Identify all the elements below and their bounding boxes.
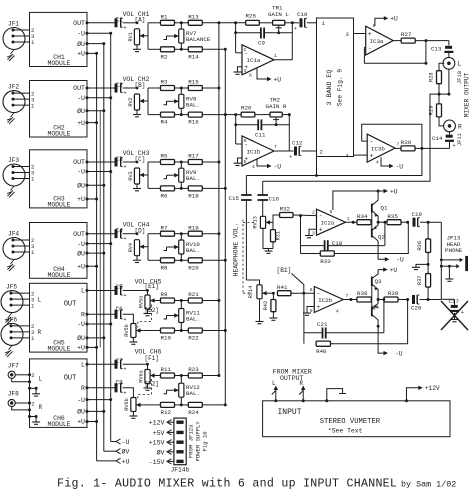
wire JF7 shield to module — [12, 378, 31, 383]
svg-text:-: - — [369, 138, 373, 145]
resistor R29 — [429, 104, 445, 126]
wire C3 to RV3 — [123, 161, 139, 164]
svg-text:+12V: +12V — [149, 420, 165, 427]
ground below RV13/R31 — [263, 228, 273, 253]
svg-text:-: - — [317, 290, 321, 297]
headphone vol gang dashes — [232, 220, 254, 294]
wiper of RV14 — [262, 291, 273, 295]
RCA connector JF7 — [8, 362, 19, 378]
svg-text:ØU: ØU — [77, 40, 85, 48]
wiper of RV5a — [150, 298, 157, 302]
svg-text:IC1a: IC1a — [247, 57, 261, 64]
resistor R14 — [188, 47, 202, 61]
svg-text:RV6b: RV6b — [124, 398, 130, 410]
resistor R38 — [351, 290, 372, 302]
ground (chassis) at JF6 — [5, 345, 13, 357]
3 BAND EQ block — [317, 18, 354, 157]
svg-text:JF7: JF7 — [8, 362, 19, 369]
svg-text:IC3b: IC3b — [371, 146, 385, 153]
svg-text:R6: R6 — [161, 192, 168, 199]
svg-text:3: 3 — [244, 68, 247, 74]
resistor R24 — [188, 402, 202, 416]
svg-text:-U: -U — [77, 241, 85, 248]
svg-text:OUT: OUT — [73, 85, 85, 92]
svg-text:C1: C1 — [116, 17, 124, 24]
stub below EQ box — [315, 157, 318, 177]
svg-text:R41: R41 — [277, 284, 288, 291]
svg-text:C6: C6 — [116, 306, 124, 313]
wire C2 to RV2 — [123, 87, 139, 90]
svg-text:See Fig. 9: See Fig. 9 — [337, 69, 344, 106]
svg-text:-: - — [368, 45, 372, 52]
svg-text:RV6a: RV6a — [138, 370, 144, 382]
potentiometer RV5a (volume) — [138, 295, 150, 309]
svg-text:2: 2 — [31, 400, 34, 407]
svg-text:OUT: OUT — [73, 20, 85, 27]
ground below RV5a — [144, 309, 152, 316]
svg-text:R10: R10 — [161, 335, 172, 342]
svg-text:+U: +U — [77, 345, 85, 352]
op-amp IC3a — [366, 23, 394, 55]
svg-text:C20: C20 — [411, 305, 422, 312]
rail terminal 0V — [104, 448, 130, 456]
svg-text:+: + — [294, 26, 297, 32]
svg-text:[F1]: [F1] — [145, 355, 159, 362]
wire R15 to L bus — [202, 87, 220, 90]
JF14b pin 0V — [157, 448, 174, 456]
capacitor C15 — [229, 176, 252, 281]
svg-text:R26: R26 — [241, 104, 252, 111]
svg-text:R7: R7 — [161, 224, 168, 231]
wire R2-R14 junction to balance pot — [175, 43, 189, 51]
svg-text:+: + — [461, 310, 464, 316]
pin numbers for JF2 — [31, 90, 35, 109]
capacitor C13 — [431, 41, 453, 58]
transistor Q3 (NPN) — [372, 270, 382, 300]
svg-text:+: + — [317, 304, 321, 311]
potentiometer RV13 (headphone vol L) — [253, 216, 266, 228]
svg-text:by Sam 1/02: by Sam 1/02 — [401, 480, 456, 490]
pin numbers for JF5 — [31, 290, 42, 309]
EQ pin 3 to IC3a — [346, 31, 366, 38]
svg-text:R: R — [81, 385, 85, 392]
capacitor C17 (deleted) — [441, 298, 468, 330]
svg-text:R18: R18 — [188, 192, 199, 199]
wiper of RV9 with ground hook — [164, 173, 179, 179]
svg-text:R30: R30 — [401, 139, 412, 146]
svg-text:JF1: JF1 — [8, 21, 19, 28]
potentiometer RV4 (volume) — [128, 240, 140, 256]
resistor R21 — [188, 291, 202, 303]
op-amp IC2b — [310, 287, 353, 314]
svg-text:GAIN L: GAIN L — [268, 11, 289, 18]
wire CH6 +U to bus — [87, 420, 98, 423]
svg-text:BAL.: BAL. — [186, 175, 200, 182]
wire headphone feed L (from IC3b node) — [246, 148, 422, 175]
label FROM MIXER OUTPUT — [273, 368, 312, 382]
wire R16 to R bus — [202, 113, 227, 116]
bus +U vertical — [96, 53, 98, 461]
svg-text:C10: C10 — [297, 11, 308, 18]
svg-text:-15V: -15V — [149, 459, 165, 466]
wiper of RV4 — [140, 245, 148, 249]
svg-text:-: - — [319, 213, 323, 220]
resistor R6 — [161, 186, 175, 200]
svg-text:-U: -U — [396, 257, 404, 264]
bus -U vertical — [110, 33, 112, 441]
svg-text:OUT: OUT — [73, 159, 85, 166]
svg-text:-U: -U — [77, 30, 85, 37]
svg-text:Q1: Q1 — [381, 205, 388, 212]
svg-text:+: + — [124, 25, 127, 31]
wire CH4 0U to bus — [87, 252, 105, 255]
svg-text:IC2a: IC2a — [321, 220, 335, 227]
wire RV5a wiper to R9 — [158, 300, 161, 302]
svg-text:BAL.: BAL. — [186, 316, 200, 323]
labels VOL CH3, C3, node C — [116, 150, 150, 163]
rail terminal -U — [111, 439, 130, 446]
RCA connector JF8 — [8, 391, 19, 407]
svg-text:2: 2 — [244, 47, 247, 53]
svg-text:L: L — [272, 380, 276, 387]
ground below RV6b — [129, 412, 137, 419]
resistor R37 — [417, 264, 430, 299]
resistor R41 — [277, 284, 314, 296]
svg-text:L: L — [81, 361, 85, 368]
potentiometer RV11 (balance) — [179, 309, 201, 323]
wire R12-R24 junction to RV12 — [175, 397, 189, 406]
svg-text:+: + — [124, 367, 127, 373]
capacitor C6 — [87, 310, 127, 323]
svg-text:C17: C17 — [449, 298, 460, 305]
svg-text:2: 2 — [312, 210, 315, 216]
wire C12 to EQ pin 2 — [302, 148, 323, 155]
module CH1 MODULE output pins — [73, 20, 88, 58]
svg-text:R17: R17 — [188, 153, 199, 160]
wire CH3 +U to bus — [87, 198, 98, 201]
svg-text:C16: C16 — [269, 196, 280, 203]
svg-text:ØU: ØU — [77, 408, 85, 416]
trimmer TR2 GAIN R — [266, 96, 287, 126]
label OUT inside CH5 module — [64, 301, 77, 309]
ground (chassis) at JF3 — [7, 186, 15, 198]
svg-text:MIXER OUTPUT: MIXER OUTPUT — [464, 72, 471, 117]
wiper of RV1 — [140, 34, 148, 38]
svg-text:+: + — [124, 91, 127, 97]
resistor R30 — [395, 139, 415, 151]
JF14b pin +5V — [153, 430, 174, 437]
resistor R15 — [188, 79, 202, 91]
trimmer TR1 GAIN L — [268, 5, 289, 35]
resistor R28 — [429, 63, 445, 83]
svg-text:BAL.: BAL. — [186, 247, 200, 254]
node label B1 with wire — [277, 267, 304, 293]
labels C8, node F2 — [116, 380, 159, 388]
labels VOL CH2, C2, node B — [116, 76, 150, 89]
pin numbers for JF3 — [31, 164, 35, 183]
svg-text:6: 6 — [244, 138, 247, 144]
svg-text:L: L — [81, 288, 85, 295]
wire RV6b wiper to R12 — [143, 404, 160, 406]
labels VOL CH5, C5, node E1 — [116, 279, 162, 292]
XLR connector JF1 — [3, 21, 30, 50]
channel module box CH3 MODULE — [30, 150, 88, 209]
resistor R7 — [161, 224, 175, 236]
svg-text:JF14b: JF14b — [171, 467, 190, 474]
resistor R3 — [161, 79, 175, 91]
svg-text:ØU: ØU — [77, 249, 85, 257]
wire RV4 wiper to summing resistors — [148, 234, 161, 261]
wire JF8 signal to module — [15, 400, 42, 410]
ground at IC1a + input — [234, 67, 243, 75]
module CH2 MODULE output pins — [73, 85, 88, 127]
svg-text:R: R — [458, 123, 462, 130]
svg-text:6: 6 — [310, 287, 313, 293]
ground below RV14 — [256, 299, 264, 324]
svg-text:+12V: +12V — [425, 385, 440, 392]
JF14b pin -15V — [149, 459, 174, 466]
wire RV2 wiper to summing resistors — [148, 88, 161, 115]
svg-text:7: 7 — [346, 293, 349, 299]
svg-text:R37: R37 — [417, 275, 423, 285]
svg-text:R21: R21 — [188, 291, 199, 298]
wiper of RV12 with ground hook — [164, 388, 179, 394]
svg-text:C3: C3 — [116, 156, 124, 163]
wire CH3 0U to bus — [87, 184, 105, 187]
svg-text:JF8: JF8 — [8, 391, 19, 398]
ground (chassis) at JF5 — [5, 313, 13, 325]
svg-text:R23: R23 — [188, 366, 199, 373]
wire Q4 collector to -U arrow — [377, 320, 403, 358]
resistor R4 — [161, 112, 175, 126]
svg-text:R42: R42 — [263, 301, 269, 310]
capacitor C14 — [432, 131, 456, 149]
svg-text:R31: R31 — [275, 231, 281, 240]
svg-text:JF10: JF10 — [457, 71, 463, 84]
wire CH1 0U to bus — [87, 42, 105, 45]
wire C7 to RV6a — [123, 363, 149, 370]
label FROM JF12a POWER SUPPLY Fig 10 — [188, 421, 209, 462]
potentiometer RV6a (volume) — [138, 370, 150, 384]
potentiometer RV14 (headphone vol R) — [246, 280, 262, 299]
capacitor C19 — [412, 211, 423, 227]
wire R11-R23 junction to RV12 — [175, 374, 189, 383]
wiper of RV3 — [140, 173, 148, 177]
svg-text:L: L — [458, 61, 462, 68]
pin numbers for JF4 — [31, 237, 35, 256]
VU ground hook — [325, 389, 346, 403]
svg-text:R3: R3 — [161, 79, 168, 86]
capacitor C20 — [411, 295, 441, 312]
svg-text:R13: R13 — [188, 13, 199, 20]
svg-text:ØU: ØU — [77, 181, 85, 189]
wire R8-R20 junction to balance pot — [175, 254, 189, 262]
transistor Q4 (PNP) — [372, 286, 380, 320]
svg-text:[B1]: [B1] — [277, 267, 292, 274]
svg-text:+: + — [369, 152, 373, 159]
labels VOL CH6, C7, node F1 — [116, 349, 162, 365]
svg-text:+: + — [368, 31, 372, 38]
feedback C21 — [304, 293, 385, 344]
VU input L arrow — [272, 380, 278, 402]
svg-text:3 BAND EQ: 3 BAND EQ — [326, 70, 333, 106]
wire L bus to summing node — [219, 21, 246, 24]
svg-text:JF4: JF4 — [8, 231, 19, 238]
wire R26 to TR2 — [255, 114, 270, 116]
wire CH4 +U to bus — [87, 265, 98, 268]
resistor R18 — [188, 186, 202, 200]
svg-text:GAIN R: GAIN R — [266, 103, 287, 110]
svg-text:OUT: OUT — [64, 301, 77, 309]
wire R18 to R bus — [202, 187, 227, 190]
svg-text:+: + — [289, 154, 292, 160]
svg-text:RV5a: RV5a — [138, 296, 144, 308]
label MIXER OUTPUT — [464, 72, 471, 117]
svg-text:C7: C7 — [116, 358, 124, 365]
svg-text:Q2: Q2 — [378, 234, 385, 241]
ground (chassis) at JF2 — [7, 113, 15, 125]
transistor Q1 (NPN) — [372, 191, 388, 222]
wire CH2 0U to bus — [87, 109, 105, 112]
wire R5-R17 junction to balance pot — [175, 161, 189, 169]
svg-text:7: 7 — [274, 144, 277, 150]
svg-text:-U: -U — [395, 351, 403, 358]
resistor R31 — [271, 222, 282, 241]
svg-text:PHONE: PHONE — [445, 247, 463, 254]
wire R27 to L output node — [415, 39, 449, 42]
svg-text:-U: -U — [396, 163, 404, 170]
supply arrow +U for Q3 — [378, 267, 397, 274]
svg-text:BAL.: BAL. — [186, 101, 200, 108]
ground below RV4 — [133, 256, 141, 263]
channel module box CH4 MODULE — [30, 223, 88, 279]
svg-text:4: 4 — [376, 160, 379, 166]
svg-text:-U: -U — [77, 95, 85, 102]
wiper of RV10 with ground hook — [164, 245, 179, 251]
gang dashes RV5a-RV5b — [138, 305, 152, 328]
svg-text:R24: R24 — [188, 409, 199, 416]
capacitor C21 — [317, 321, 328, 339]
ground below RV1 — [133, 45, 141, 52]
svg-text:ØU: ØU — [77, 334, 85, 342]
svg-text:R: R — [39, 404, 43, 411]
svg-text:OUT: OUT — [64, 375, 77, 383]
svg-text:R22: R22 — [188, 335, 199, 342]
svg-text:R5: R5 — [161, 153, 168, 160]
wire Q2 collector to -U arrow — [378, 241, 404, 264]
svg-text:R39: R39 — [388, 290, 399, 297]
wire TR1 to output node — [285, 21, 294, 24]
potentiometer RV9 (balance) — [179, 168, 200, 182]
svg-text:RV4: RV4 — [128, 243, 134, 252]
wire headphone feed R (from R28/R29 tap) — [263, 98, 430, 181]
capacitor C3 — [87, 158, 127, 171]
wiper of RV5b — [136, 328, 143, 332]
bus aux vertical — [99, 111, 101, 348]
ground stub at headphone bias node — [412, 263, 430, 270]
svg-text:+U: +U — [390, 188, 398, 195]
svg-text:+: + — [453, 143, 456, 149]
svg-text:RV5b: RV5b — [124, 324, 130, 336]
svg-text:+U: +U — [77, 196, 85, 203]
svg-text:+: + — [124, 165, 127, 171]
EQ pin 4 to IC3b — [346, 153, 368, 160]
wire RV1 wiper to summing resistors — [148, 23, 161, 50]
module CH4 MODULE output pins — [73, 231, 88, 271]
svg-text:1: 1 — [347, 216, 350, 222]
svg-text:R25: R25 — [246, 13, 257, 20]
svg-text:+U: +U — [77, 263, 85, 270]
resistor R19 — [188, 224, 202, 236]
ground (chassis) at JF4 — [7, 260, 15, 272]
capacitor C2 — [87, 84, 127, 97]
resistor R34 — [353, 213, 372, 225]
ground pin of JF8 input — [28, 415, 40, 424]
module CH3 MODULE output pins — [73, 159, 88, 203]
capacitor C4 — [87, 229, 127, 242]
resistor R23 — [188, 366, 202, 378]
connector JF14b (power input) — [171, 418, 190, 473]
rail terminal +U — [97, 458, 130, 465]
wire CH5 +U to bus — [87, 346, 98, 349]
ground (chassis) at JF1 — [7, 50, 15, 62]
wire C5 to RV5a — [123, 289, 149, 295]
wire R bus to summing node — [225, 113, 241, 116]
resistor R8 — [161, 258, 175, 272]
svg-text:ØV: ØV — [157, 448, 165, 456]
svg-text:RV3: RV3 — [128, 171, 134, 180]
svg-text:POWER SUPPLY: POWER SUPPLY — [195, 421, 202, 462]
wire C19 to jack feed vertical — [420, 221, 441, 300]
potentiometer RV5b (volume) — [124, 324, 136, 338]
svg-text:C18: C18 — [332, 240, 343, 247]
wire CH6 -U to bus — [87, 398, 112, 401]
wire R24 to R bus (bottom of R bus) — [202, 403, 227, 406]
wire R22 to R bus — [202, 329, 227, 332]
VU input R arrow — [299, 380, 305, 402]
svg-text:+U: +U — [390, 16, 398, 23]
capacitor C11 — [255, 119, 266, 138]
wire R30 to R output node and C14 — [415, 147, 450, 150]
svg-text:R4: R4 — [161, 119, 168, 126]
wire R19 to L bus — [202, 232, 220, 235]
resistor R32 — [280, 206, 317, 218]
svg-text:MODULE: MODULE — [47, 272, 70, 279]
op-amp IC1b — [236, 136, 290, 166]
svg-text:OUT: OUT — [73, 231, 85, 238]
svg-text:R40: R40 — [316, 348, 327, 355]
wire R10-R22 junction to RV11 — [175, 323, 189, 333]
wire R21 to L bus — [202, 299, 220, 302]
XLR connector JF5 — [1, 284, 30, 313]
RCA jack JF11 (R mixer out) — [444, 120, 463, 146]
channel module box CH2 MODULE — [30, 81, 88, 138]
resistor R9 — [161, 291, 175, 303]
svg-text:FROM JF12a: FROM JF12a — [188, 424, 195, 458]
svg-text:RV14: RV14 — [248, 286, 254, 298]
L mix bus vertical — [218, 23, 220, 376]
XLR connector JF2 — [3, 84, 30, 113]
op-amp IC2a — [312, 209, 355, 237]
svg-text:R15: R15 — [188, 79, 199, 86]
svg-text:R33: R33 — [320, 258, 331, 265]
svg-text:C15: C15 — [229, 195, 240, 202]
resistor R1 — [161, 13, 175, 25]
wire JF8 shield to module — [12, 407, 31, 412]
svg-text:ØV: ØV — [122, 448, 130, 456]
svg-text:[E1]: [E1] — [145, 283, 159, 290]
svg-text:L: L — [39, 376, 43, 383]
